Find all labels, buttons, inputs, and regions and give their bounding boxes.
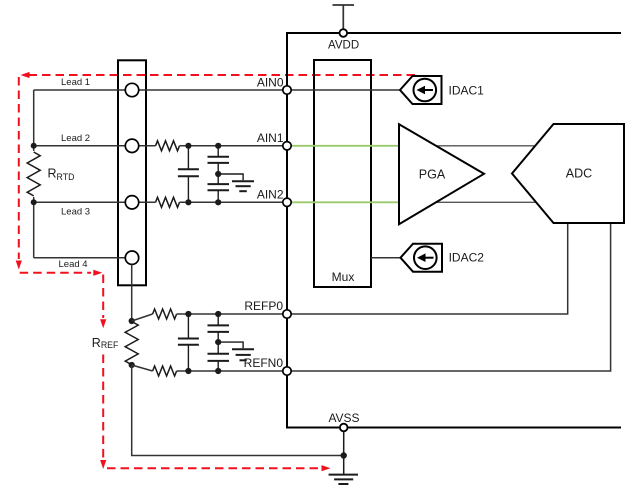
capacitor C-cm1-REF plates <box>208 324 230 326</box>
capacitor C-diff-REF plates <box>178 338 199 340</box>
wire AIN0 to IDAC1 <box>287 89 400 91</box>
wire ground tap AIN <box>218 174 243 180</box>
svg-text:IDAC1: IDAC1 <box>449 83 485 97</box>
svg-text:REFP0: REFP0 <box>244 299 283 313</box>
capacitor C-cm1-AIN leads <box>217 146 219 157</box>
capacitor C-diff-AIN vertical leads <box>187 146 189 170</box>
ground REF filter <box>232 348 254 350</box>
red arrow down (above bottom corner) <box>100 460 106 469</box>
connector circle pin1 <box>125 83 138 96</box>
node RREF bottom <box>129 362 135 368</box>
svg-text:Lead 4: Lead 4 <box>59 259 88 270</box>
current source IDAC1 circle <box>414 79 437 102</box>
node lead3 junction <box>31 199 37 205</box>
svg-text:AIN1: AIN1 <box>257 131 284 145</box>
ADC block <box>512 124 624 223</box>
junction dot cm mid AIN <box>215 171 221 177</box>
wire PGA to ADC bottom <box>430 201 540 203</box>
wire RREF bottom down and to ground <box>132 365 344 456</box>
junction dot AVSS-RREF return <box>341 452 347 458</box>
wire AIN2 segment <box>180 201 288 203</box>
wire diagonal RREF bottom to REFN row <box>132 365 153 371</box>
svg-text:ADC: ADC <box>566 167 592 181</box>
red path: mid vertical upper part <box>102 275 104 319</box>
svg-text:Lead 2: Lead 2 <box>61 133 90 144</box>
ground AIN filter <box>232 180 254 182</box>
green route AIN1 to PGA <box>290 145 399 147</box>
junction dot REFN cm node <box>215 368 221 374</box>
svg-text:RREF: RREF <box>92 336 119 350</box>
node AIN2 <box>283 198 291 206</box>
current source IDAC2 circle <box>414 246 437 269</box>
node REFP0 <box>283 310 291 318</box>
green route AIN2 to PGA <box>290 201 399 203</box>
resistor R-filter-REFN <box>153 366 177 376</box>
resistor R_REF <box>125 322 138 365</box>
svg-text:Lead 1: Lead 1 <box>61 77 90 88</box>
node AIN0 <box>283 86 291 94</box>
current source IDAC1 tag <box>400 76 442 104</box>
wire REFN segment <box>177 370 287 372</box>
wire left vertical (RTD loop) <box>33 90 35 258</box>
Mux block U-MUX <box>314 60 371 287</box>
svg-text:Lead 3: Lead 3 <box>61 207 90 218</box>
wire AIN1 segment <box>180 145 288 147</box>
node RREF top <box>129 318 135 324</box>
junction dot cm mid REF <box>215 339 221 345</box>
capacitor C-cm2-REF leads <box>217 342 219 354</box>
capacitor C-diff-AIN plates <box>178 168 199 170</box>
resistor R-filter-REFP <box>153 309 177 319</box>
svg-text:RRTD: RRTD <box>48 167 75 182</box>
node REFN0 <box>283 367 291 375</box>
current source IDAC1 arrow <box>423 89 433 91</box>
wire lead1/AIN0 row <box>34 89 287 91</box>
node AVDD <box>340 29 348 37</box>
resistor R-filter-AIN1 <box>156 141 180 151</box>
red arrow down (mid line) <box>100 319 106 328</box>
junction dot REFN node A <box>185 368 191 374</box>
svg-text:REFN0: REFN0 <box>244 356 284 370</box>
svg-text:IDAC2: IDAC2 <box>449 251 485 265</box>
svg-text:AVDD: AVDD <box>328 39 359 51</box>
current source IDAC2 tag <box>401 244 443 272</box>
junction dot REFP cm node <box>215 311 221 317</box>
junction dot AIN2 filter node B <box>185 199 191 205</box>
node AVSS <box>340 424 348 432</box>
wire REFP segment <box>177 313 287 315</box>
red path: bottom horizontal <box>107 467 320 469</box>
red path: mid vertical lower part <box>102 355 104 460</box>
red path: left vertical <box>18 77 20 259</box>
capacitor C-diff-REF leads <box>187 314 189 339</box>
wire lead4 row <box>34 257 126 259</box>
junction dot AIN1 filter node A <box>185 143 191 149</box>
wire lead3 row <box>34 201 156 203</box>
red arrow right (to ground) <box>322 465 331 471</box>
capacitor C-cm1-AIN plates <box>208 156 230 158</box>
op-amp PGA <box>399 124 484 224</box>
AVDD supply bar <box>333 4 355 6</box>
wire lead2 row <box>34 145 156 147</box>
chip outline (big box, open right side) <box>287 33 621 428</box>
wire REFP0 to ADC <box>287 223 568 314</box>
node lead2 junction <box>31 143 37 149</box>
connector circle pin4 <box>125 251 138 264</box>
wire ground tap REF <box>218 342 243 348</box>
red arrow right (mid) <box>93 270 102 276</box>
junction dot AIN1 cm node <box>215 143 221 149</box>
red lead-current path: top horizontal <box>16 72 415 471</box>
svg-text:Mux: Mux <box>332 270 355 284</box>
node AIN1 <box>283 142 291 150</box>
red arrow left <box>21 72 30 78</box>
svg-text:PGA: PGA <box>419 167 446 181</box>
current source IDAC2 arrow <box>424 257 434 259</box>
connector J1 (4-lead terminal block) <box>118 60 146 285</box>
wire PGA to ADC top <box>430 145 540 147</box>
capacitor C-cm1-REF leads <box>217 314 219 325</box>
red path: short horizontal <box>20 272 91 274</box>
wire diagonal RREF top to REFP row <box>132 314 153 321</box>
connector circle pin2 <box>125 139 138 152</box>
resistor R_RTD <box>27 151 40 197</box>
wire pin4 down to RREF <box>131 264 133 321</box>
capacitor C-cm2-REF plates <box>208 353 230 355</box>
red arrow down (left) <box>16 261 22 270</box>
svg-text:AIN2: AIN2 <box>257 188 284 202</box>
connector circle pin3 <box>125 196 138 209</box>
resistor R-filter-AIN2 <box>156 197 180 207</box>
junction dot AIN2 cm node <box>215 199 221 205</box>
svg-text:AIN0: AIN0 <box>257 75 284 89</box>
wire Mux to IDAC2 <box>371 257 401 259</box>
wire AVSS to ground <box>343 431 345 474</box>
wire REFN0 to ADC <box>287 223 611 371</box>
capacitor C-cm2-AIN leads <box>217 174 219 184</box>
capacitor C-cm2-AIN plates <box>208 183 230 185</box>
junction dot REFP node A <box>185 311 191 317</box>
ground main <box>329 474 358 476</box>
svg-text:AVSS: AVSS <box>328 411 359 425</box>
